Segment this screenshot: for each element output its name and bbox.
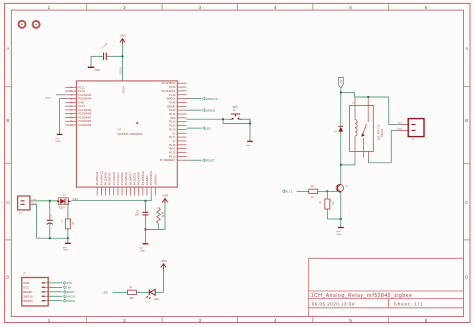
connector J3 (SWD) (22, 272, 48, 306)
svg-text:RESET: RESET (205, 158, 215, 162)
power +3V3 (under IC) (162, 194, 169, 204)
svg-text:P0.04/AIN2: P0.04/AIN2 (137, 171, 141, 185)
svg-text:P1.10: P1.10 (78, 90, 85, 93)
frame column numbers top (48, 5, 428, 11)
svg-text:4: 4 (274, 318, 277, 324)
svg-text:RELAY: RELAY (380, 128, 384, 137)
svg-text:GND: GND (23, 281, 29, 285)
wire R5 to LED (137, 291, 150, 293)
wire bypass below button (223, 119, 250, 123)
svg-text:P0.24: P0.24 (169, 113, 176, 116)
ground (IC left) (56, 134, 63, 142)
relay coil pin 1 stub (354, 97, 356, 105)
svg-text:B: B (465, 118, 468, 123)
svg-text:GND: GND (56, 141, 61, 143)
svg-text:GND: GND (337, 234, 342, 236)
wire gnd drop (transistor) (340, 219, 342, 227)
svg-text:pwr: pwr (56, 137, 60, 140)
IC U1 nRF52840 module body (76, 81, 177, 187)
svg-text:P1.04: P1.04 (169, 109, 176, 112)
wires J3 to labels (48, 283, 62, 301)
svg-text:+5V: +5V (340, 79, 343, 84)
svg-text:Sheet: 1/1: Sheet: 1/1 (394, 301, 423, 306)
wire inductor bottom (158, 224, 160, 229)
wire +5V bus to relay COM / connector (355, 96, 389, 98)
svg-text:P0.12/CS2: P0.12/CS2 (133, 172, 137, 185)
svg-text:P1.45: P1.45 (169, 101, 176, 104)
frame row ticks (5, 87, 470, 240)
capacitor C1 (top) (101, 42, 109, 60)
svg-text:P0.12/AIN0: P0.12/AIN0 (104, 171, 108, 185)
wire cap C3 top (49, 201, 51, 220)
wire bottom rail (145, 228, 165, 230)
resistor R5 (LED series) (128, 287, 137, 300)
svg-text:3.8V: 3.8V (66, 285, 72, 289)
svg-text:P0.30/AIN6: P0.30/AIN6 (78, 120, 91, 123)
svg-text:1uF: 1uF (135, 214, 140, 217)
title block (309, 258, 464, 316)
svg-text:pwr: pwr (63, 246, 67, 249)
junction (button left) (222, 118, 224, 120)
wire J1 pin1 to diode (33, 200, 57, 202)
wire rail to gnd (144, 229, 146, 243)
frame row letters right (465, 46, 468, 280)
IC right pins (162, 82, 187, 158)
connector J1 (battery) (18, 196, 38, 216)
svg-text:P0.29/AIN5: P0.29/AIN5 (78, 113, 91, 116)
junction (gnd rail / resistor) (67, 237, 69, 239)
svg-text:P0.31/AIN6: P0.31/AIN6 (78, 109, 91, 112)
svg-text:SWDIO: SWDIO (167, 105, 176, 108)
frame column numbers bottom (48, 318, 428, 324)
wire +3V3 to IC VDDH (122, 44, 124, 81)
wire SWDCLK (187, 98, 202, 100)
svg-text:GND: GND (78, 101, 84, 104)
svg-text:D: D (465, 275, 468, 280)
svg-text:LED: LED (205, 126, 212, 130)
IC U1 reference and value (118, 121, 143, 136)
resistor R2 (bleeder) (62, 218, 76, 229)
wire +5V to coil top (341, 93, 355, 98)
svg-text:P0.15: P0.15 (169, 152, 176, 155)
svg-text:P0.10/NFC2: P0.10/NFC2 (162, 82, 176, 85)
svg-text:VDD/3V3: VDD/3V3 (153, 174, 157, 185)
wire cap branch lower (144, 215, 146, 229)
wire IC to button (187, 118, 230, 120)
resistor R4 (pulldown) (319, 198, 335, 209)
wire diode out (70, 200, 72, 202)
svg-text:SW?: SW? (233, 106, 239, 109)
wire HLK to pin (56, 94, 65, 96)
svg-text:6: 6 (425, 5, 428, 11)
wire cap right (107, 55, 123, 57)
svg-text:P0.06/RXD: P0.06/RXD (124, 172, 128, 185)
svg-text:P0.26/AIN7: P0.26/AIN7 (78, 116, 91, 119)
svg-text:GND/EP: GND/EP (145, 175, 149, 185)
capacitor C3 (polarized) (47, 214, 53, 224)
wire pulldown bottom (327, 209, 340, 219)
global labels (SWD nets) (63, 281, 76, 303)
svg-text:GND: GND (66, 281, 72, 285)
svg-text:P1.06: P1.06 (169, 86, 176, 89)
svg-text:+3V3: +3V3 (162, 194, 169, 198)
wire +3V3 drop (164, 204, 166, 230)
wire J1 pin2 down (33, 204, 68, 238)
global label SWDCLK (202, 97, 218, 101)
svg-text:P0.20: P0.20 (169, 128, 176, 131)
svg-text:P0.26/INT1: P0.26/INT1 (128, 172, 132, 186)
svg-text:P0.28/AIN4: P0.28/AIN4 (95, 171, 99, 185)
ground (battery) (63, 243, 71, 251)
svg-text:LED: LED (103, 291, 108, 295)
svg-text:SWCLK: SWCLK (167, 98, 176, 101)
wire IC pin drop to 3.8V rail (150, 196, 152, 201)
svg-text:A: A (7, 46, 10, 51)
wire resistor R2 bottom (67, 229, 69, 238)
svg-text:pwr: pwr (140, 247, 144, 250)
svg-text:1M: 1M (73, 222, 75, 225)
relay contact (361, 105, 368, 151)
relay NO pin stub (368, 151, 370, 157)
svg-text:P1.15/MOSI: P1.15/MOSI (141, 171, 145, 185)
svg-text:VCC: VCC (23, 285, 29, 289)
wire LED (IC to label) (187, 127, 202, 129)
power tag +5V (relay) (338, 78, 343, 89)
svg-text:P0.17: P0.17 (169, 136, 176, 139)
power +3V3 (LED) (160, 259, 167, 269)
svg-text:S-: S- (173, 140, 176, 143)
IC right pin P0.18/RESET (160, 159, 187, 162)
svg-text:1: 1 (48, 5, 51, 11)
connector J2 pin stubs (400, 125, 408, 131)
connector J1 pin 2 stub (30, 203, 33, 205)
connector J3 pins (23, 281, 48, 303)
junction (coil bottom / collector) (340, 164, 342, 166)
svg-text:pwr: pwr (247, 144, 251, 147)
svg-text:D: D (6, 275, 9, 280)
wire emitter (340, 192, 342, 219)
svg-text:P0.25: P0.25 (169, 144, 176, 147)
svg-text:P1.13: P1.13 (78, 105, 85, 108)
wire pin to gnd (left) (60, 99, 66, 134)
power +3V3 (top) (119, 34, 126, 45)
wire LED to +3V3 (155, 268, 163, 293)
diode D1 (reverse protection) (57, 195, 70, 210)
wire +5V to junction (340, 88, 342, 93)
svg-text:P0.13: P0.13 (169, 155, 176, 158)
IC bottom pins (95, 170, 157, 195)
svg-text:RLY1: RLY1 (285, 190, 293, 194)
wire cap C3 bottom (49, 224, 51, 239)
junction (3.8V rail / cap) (144, 200, 146, 202)
ground (transistor) (337, 228, 344, 236)
wire cap branch upper (144, 201, 146, 212)
relay K1 body (350, 105, 374, 151)
svg-text:SWDIO: SWDIO (205, 108, 216, 112)
wire 3.8V rail (battery to IC) (72, 200, 152, 202)
wire relay COM to connector pin1 (389, 97, 400, 125)
wire base to bar (318, 190, 338, 192)
svg-text:HLK?: HLK? (45, 96, 52, 100)
svg-text:GND: GND (95, 69, 101, 72)
wire button to gnd (249, 119, 251, 141)
svg-text:P1.07/SCL: P1.07/SCL (116, 172, 120, 185)
svg-text:2: 2 (123, 5, 126, 11)
wire coil bottom to collector (341, 158, 355, 165)
ground (button) (247, 141, 253, 147)
junction (gnd rail / cap) (49, 237, 51, 239)
ground (top cap) (88, 56, 100, 72)
relay COM pin stub (367, 97, 369, 105)
frame row letters left (6, 46, 9, 280)
svg-text:P1.46: P1.46 (169, 94, 176, 97)
global label RESET (202, 158, 215, 162)
svg-text:+3V3: +3V3 (160, 259, 167, 263)
svg-text:06.06.2020 13:34: 06.06.2020 13:34 (312, 301, 355, 306)
resistor R3 (base) (309, 186, 318, 199)
relay coil (355, 105, 357, 151)
svg-text:C: C (6, 200, 9, 205)
junction (emitter / pulldown) (340, 218, 342, 220)
relay NC pin stub (363, 151, 365, 157)
svg-text:P0.03/AIN1: P0.03/AIN1 (78, 94, 91, 97)
svg-text:C: C (465, 200, 468, 205)
svg-text:S+: S+ (172, 132, 176, 135)
connector J2 (relay output) (396, 119, 424, 142)
svg-text:3: 3 (198, 318, 201, 324)
svg-text:330: 330 (130, 297, 135, 300)
svg-text:+3V3: +3V3 (119, 34, 126, 38)
svg-text:P0.09/NFC1: P0.09/NFC1 (162, 90, 176, 93)
svg-text:5: 5 (349, 318, 352, 324)
push button SW1 (230, 106, 243, 119)
mounting hole H1 (19, 21, 26, 28)
global label SWDIO (202, 108, 216, 112)
wire LED label to R5 (113, 291, 128, 293)
svg-text:JQC-3FF-S-Z: JQC-3FF-S-Z (377, 124, 381, 140)
svg-text:SWDCLK: SWDCLK (205, 97, 218, 101)
flyback diode D2 (334, 93, 343, 165)
svg-text:P0.08/TXD: P0.08/TXD (108, 172, 112, 185)
wire RESET (IC to label) (187, 159, 202, 161)
svg-text:RESET: RESET (66, 290, 76, 294)
junction (battery cap) (49, 200, 51, 202)
wire gnd drop (battery) (67, 238, 69, 243)
global label RLY1 (282, 190, 292, 194)
junction (bottom rail) (144, 228, 146, 230)
svg-text:P0.18/RESET: P0.18/RESET (160, 159, 176, 162)
global label LED (202, 126, 211, 130)
mounting hole H2 (33, 21, 40, 28)
svg-text:RESET: RESET (23, 290, 33, 294)
IC left pins (65, 86, 92, 127)
svg-text:3: 3 (198, 5, 201, 11)
svg-text:GND: GND (140, 250, 145, 252)
junction (relay COM) (367, 96, 369, 98)
svg-text:P1.02/SDA: P1.02/SDA (120, 172, 124, 185)
capacitor C2 (under IC) (135, 211, 149, 217)
svg-text:pwr: pwr (337, 230, 341, 233)
svg-text:VDDH: VDDH (122, 86, 125, 93)
inductor L1 (zigzag) (157, 207, 165, 224)
svg-text:1CH_Analog_Relay_nrf52840_zigb: 1CH_Analog_Relay_nrf52840_zigbee (311, 293, 413, 299)
svg-text:P1.05/AIN2: P1.05/AIN2 (112, 171, 116, 185)
svg-text:A: A (465, 46, 468, 51)
wire SWDIO (187, 109, 202, 111)
relay coil pin 2 stub (354, 151, 356, 157)
svg-text:VBUS: VBUS (169, 148, 176, 151)
svg-text:SWCLK: SWCLK (23, 294, 33, 298)
svg-text:SWDIO: SWDIO (66, 299, 76, 303)
svg-text:P0.29/AIN4: P0.29/AIN4 (78, 98, 91, 101)
wire collector (340, 165, 342, 184)
svg-text:2: 2 (123, 318, 126, 324)
svg-text:4: 4 (274, 5, 277, 11)
svg-text:5: 5 (349, 5, 352, 11)
transistor Q1 (336, 184, 349, 193)
connector J1 pin 1 stub (30, 200, 33, 202)
junction (cap / +3V3) (121, 55, 123, 57)
svg-text:P0.22: P0.22 (169, 121, 176, 124)
wire resistor R2 top (67, 203, 69, 219)
wire pulldown top (326, 191, 328, 199)
svg-text:ISP1807-nRF52840: ISP1807-nRF52840 (118, 132, 143, 136)
ground (under IC) (140, 244, 148, 253)
wire relay NO to connector pin2 (369, 130, 400, 162)
wire button right (242, 118, 250, 120)
junction (button right) (249, 122, 251, 124)
svg-text:P1.11: P1.11 (78, 86, 85, 89)
svg-text:GND: GND (63, 250, 68, 252)
junction (base / pulldown) (326, 190, 328, 192)
svg-text:P1.00: P1.00 (169, 125, 176, 128)
relay K1 value text (353, 103, 385, 141)
wire RLY1 to R3 (297, 190, 309, 192)
svg-text:P0.05/MISO: P0.05/MISO (149, 171, 153, 185)
svg-text:B: B (7, 118, 10, 123)
svg-text:1: 1 (48, 318, 51, 324)
svg-text:SWCLK: SWCLK (66, 294, 76, 298)
junction (+5V) (340, 91, 342, 93)
svg-text:SW0: SW0 (170, 117, 176, 120)
svg-text:SS14: SS14 (59, 207, 65, 209)
frame column ticks (87, 3, 389, 322)
svg-text:SWDIO: SWDIO (23, 299, 33, 303)
svg-text:3.8V: 3.8V (73, 197, 79, 201)
wire cap left (91, 55, 103, 57)
svg-text:P1.09/NFC2: P1.09/NFC2 (99, 170, 103, 185)
svg-text:VDDH: VDDH (119, 67, 123, 74)
svg-text:P0.28/AIN0: P0.28/AIN0 (78, 124, 91, 127)
svg-text:J?: J? (23, 272, 26, 276)
svg-text:LED: LED (154, 298, 159, 301)
svg-text:6: 6 (425, 318, 428, 324)
LED D3 (146, 289, 159, 300)
